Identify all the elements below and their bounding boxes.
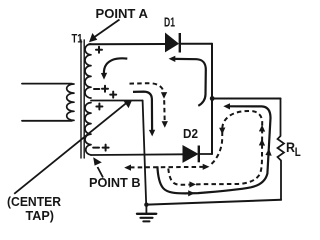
diode D1 [166,33,180,53]
transformer T1 primary top lead [22,83,72,85]
mid arrow up near RL [265,149,271,156]
wire center tap vertical to ground [143,101,147,205]
end arrow left under junction wire [223,103,230,109]
callout arrow POINT B [93,157,103,177]
callout arrow CENTER TAP leader [14,100,132,194]
wire RL bottom lead [280,161,282,200]
mid arrow down on left leg of loop [219,128,225,135]
svg-text:POINT A: POINT A [96,6,149,21]
minus mid upper [94,88,99,90]
svg-text:POINT B: POINT B [89,175,141,190]
plus bottom [103,145,109,151]
mid arrow up on RL dashed leg (lower) [259,139,265,146]
mid arrow right near bottom [188,190,195,196]
svg-text:TAP): TAP) [26,209,55,223]
wire center tap horizontal [91,100,143,102]
mid arrow right below D2 [189,181,196,187]
solid current flow: arc at secondary top [101,58,127,79]
plus lower half top [96,104,102,110]
wire right vertical (D1 cathode to D2 cathode) [211,44,213,154]
svg-text:(CENTER: (CENTER [7,195,61,209]
wire RL top lead [280,99,282,137]
svg-text:L: L [295,147,301,159]
svg-text:D2: D2 [183,126,198,141]
plus top (secondary upper end) [96,47,102,53]
wire top rail left of D1 [89,43,166,45]
svg-text:R: R [286,139,295,155]
transformer T1 core [81,40,84,158]
plus mid upper [102,86,108,92]
callout arrow POINT A [89,20,120,43]
solid current flow: ground around RL up to junction [157,103,271,196]
wire junction to RL [212,98,281,100]
diode D2 [183,146,199,163]
dashed current flow: center tap to D2 anode [130,83,168,128]
dashed current flow: horizontal both-ends arrows under D2 row [124,164,209,171]
ground [137,203,156,222]
node junction dot (D1/D2 cathodes to RL) [210,96,215,101]
mid arrow up on RL dashed leg (upper) [259,125,265,132]
plus center tap lower [110,92,116,98]
svg-text:D1: D1 [164,15,175,30]
wire D2 cathode stub [200,153,212,155]
wire D2 anode row [91,153,183,156]
solid current flow: junction up to top rail leftward arrow [169,56,206,106]
resistor RL zigzag [278,136,285,161]
transformer T1 secondary winding lower half [85,103,91,155]
wire top rail right of D1 [181,43,212,45]
svg-text:T1: T1 [72,33,83,45]
minus bottom [93,147,99,149]
dashed current flow: below D2 to RL and loop over junction [168,111,265,188]
polarity marks [93,47,116,151]
wire bottom rail [147,200,281,205]
solid current flow: center tap down arrow [133,92,155,137]
transformer T1 primary winding [67,84,74,120]
transformer T1 primary bottom lead [22,120,72,122]
transformer T1 secondary winding upper half [85,44,91,98]
